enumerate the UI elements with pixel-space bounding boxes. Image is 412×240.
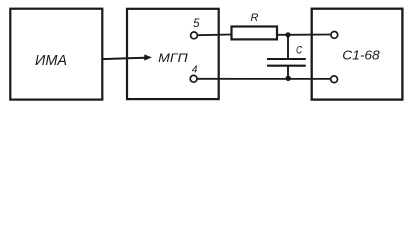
- svg-text:С1-68: С1-68: [342, 48, 380, 63]
- svg-text:R: R: [251, 12, 259, 24]
- svg-text:4: 4: [192, 64, 198, 75]
- svg-text:C: C: [296, 44, 303, 56]
- wire pin4 to oscilloscope bottom terminal: [197, 78, 331, 80]
- wire arrow from ИМА to МГП: [102, 54, 152, 60]
- node B junction dot (bottom): [286, 76, 291, 81]
- svg-text:ИМА: ИМА: [35, 53, 67, 69]
- node A junction dot (top): [285, 32, 290, 37]
- block U3 С1-68 (oscilloscope): [312, 9, 403, 100]
- pin 5 terminal of МГП: [191, 17, 200, 39]
- wire pin5 to resistor: [197, 34, 231, 37]
- resistor R: [232, 12, 278, 39]
- capacitor C: [267, 35, 306, 79]
- terminal top input of С1-68: [331, 32, 338, 39]
- block U1 ИМА (signal source): [10, 9, 102, 100]
- block U2 МГП (modulator): [127, 9, 219, 99]
- svg-text:5: 5: [193, 17, 200, 30]
- wire resistor to node A: [277, 34, 288, 36]
- wire node A to oscilloscope top terminal: [288, 34, 331, 36]
- pin 4 terminal of МГП: [190, 64, 198, 82]
- svg-text:МГП: МГП: [158, 51, 188, 65]
- terminal bottom input of С1-68: [331, 76, 338, 83]
